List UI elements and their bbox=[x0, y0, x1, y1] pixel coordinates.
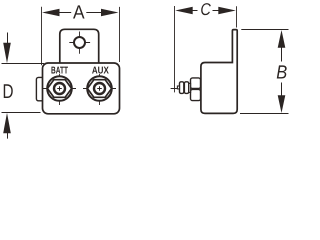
dim D bottom arrow tail bbox=[7, 131, 9, 139]
BATT connector hex nut bbox=[47, 80, 71, 98]
svg-text:C: C bbox=[200, 0, 211, 19]
connector stub between nut and barb bbox=[189, 83, 191, 92]
barb ring 2 bbox=[184, 82, 188, 94]
AUX connector crosshair bbox=[83, 88, 116, 90]
dim B top extension line bbox=[241, 29, 288, 31]
dim D bottom arrow (points up) bbox=[3, 113, 11, 133]
dim B bottom extension line bbox=[240, 113, 289, 115]
dim C left arrowhead bbox=[175, 7, 193, 15]
dim D top extension line bbox=[2, 63, 45, 65]
dim C left extension line bbox=[174, 6, 176, 92]
dim A line left segment bbox=[57, 12, 71, 14]
dim A left extension line bbox=[41, 7, 43, 65]
dim A right extension line bbox=[119, 7, 121, 62]
barb ring 1 bbox=[180, 82, 184, 94]
dim A line right segment bbox=[86, 12, 103, 14]
dim C line left segment bbox=[190, 10, 198, 12]
svg-text:AUX: AUX bbox=[92, 65, 109, 76]
AUX connector inner ring bbox=[94, 83, 105, 94]
dim C right arrowhead bbox=[218, 7, 236, 15]
dim A left arrowhead bbox=[42, 9, 60, 17]
BATT connector outer circle bbox=[47, 76, 72, 101]
tab hole crosshair bbox=[69, 42, 90, 44]
barb tip stub bbox=[177, 86, 179, 89]
side body with top tab bbox=[201, 30, 237, 114]
svg-text:A: A bbox=[73, 2, 85, 23]
dim A right arrowhead bbox=[101, 9, 119, 17]
dim D top arrow tail bbox=[7, 33, 9, 45]
dim B line upper segment bbox=[281, 47, 283, 62]
left side bracket bbox=[36, 77, 44, 100]
BATT connector crosshair bbox=[43, 88, 76, 90]
svg-text:D: D bbox=[3, 81, 14, 103]
AUX connector outer circle bbox=[87, 76, 112, 101]
dim B top arrow (points up) bbox=[278, 30, 286, 48]
svg-text:B: B bbox=[276, 63, 287, 84]
AUX connector center plus bbox=[97, 88, 102, 90]
main body (front) bbox=[43, 63, 120, 114]
mounting tab bbox=[60, 29, 99, 64]
dim B line lower segment bbox=[281, 83, 283, 97]
hex nut upper facet bbox=[191, 78, 201, 89]
dim B bottom arrow (points down) bbox=[278, 95, 286, 113]
dim D top arrow (points down) bbox=[3, 43, 11, 63]
hex nut lower facet bbox=[191, 89, 201, 100]
dim C right extension line bbox=[236, 6, 238, 27]
BATT connector inner ring bbox=[54, 83, 65, 94]
AUX connector hex nut bbox=[87, 80, 111, 98]
dim D bottom extension line bbox=[2, 112, 41, 114]
dim C line right segment bbox=[213, 10, 222, 12]
BATT connector center plus bbox=[57, 88, 62, 90]
connector centerline tick bbox=[171, 88, 178, 90]
tab hole bbox=[74, 37, 85, 48]
